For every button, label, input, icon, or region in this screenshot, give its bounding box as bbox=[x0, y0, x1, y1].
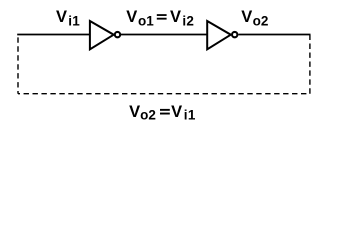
bubble of U2 bbox=[232, 32, 237, 37]
svg-text:i1: i1 bbox=[184, 108, 196, 123]
svg-text:o2: o2 bbox=[140, 108, 156, 123]
label Vo1 = Vi2 bbox=[126, 8, 194, 28]
svg-text:V: V bbox=[126, 8, 137, 26]
label Vo2 bbox=[241, 8, 268, 28]
svg-text:V: V bbox=[129, 103, 140, 121]
svg-text:o1: o1 bbox=[138, 13, 154, 28]
wire U1 output to U2 input bbox=[121, 34, 207, 36]
svg-text:V: V bbox=[170, 8, 181, 26]
label Vi1 bbox=[56, 8, 80, 28]
svg-text:V: V bbox=[171, 103, 182, 121]
svg-text:i2: i2 bbox=[182, 13, 194, 28]
inverter U1 bbox=[90, 21, 114, 49]
svg-text:V: V bbox=[56, 8, 67, 26]
wire input to U1 bbox=[17, 34, 90, 36]
svg-text:V: V bbox=[241, 8, 252, 26]
wire U2 output to right corner bbox=[238, 34, 310, 36]
dashed feedback wire left vertical bbox=[17, 35, 19, 93]
inverter U2 bbox=[207, 21, 231, 49]
svg-text:i1: i1 bbox=[68, 13, 80, 28]
svg-text:o2: o2 bbox=[253, 13, 269, 28]
dashed feedback wire right vertical bbox=[309, 35, 311, 94]
bubble of U1 bbox=[115, 32, 120, 37]
equation Vo2 = Vi1 bbox=[129, 103, 196, 123]
dashed feedback wire bottom horizontal bbox=[18, 93, 310, 95]
